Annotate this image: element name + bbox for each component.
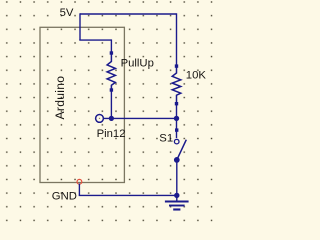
resistor PullUp bbox=[107, 51, 115, 91]
junction at PullUp/Pin12 bbox=[109, 116, 114, 121]
junction at ground bbox=[174, 193, 179, 198]
junction at 10K/Pin12 bbox=[174, 116, 179, 121]
pin Pin12 circle bbox=[96, 115, 104, 123]
svg-text:PullUp: PullUp bbox=[121, 58, 154, 70]
svg-text:Arduino: Arduino bbox=[53, 76, 67, 120]
Arduino box bbox=[40, 27, 124, 182]
wire 5V net left vertical bbox=[79, 13, 81, 40]
wire 10K bottom to switch bbox=[176, 104, 178, 138]
wire Pin12 horizontal bbox=[104, 117, 177, 119]
wire 5V net top horizontal bbox=[80, 13, 177, 15]
svg-text:Pin12: Pin12 bbox=[97, 128, 126, 140]
wire junction to ground symbol bbox=[176, 195, 178, 201]
wire PullUp top lead bbox=[110, 39, 112, 53]
resistor 10K bbox=[172, 64, 181, 105]
ground symbol bbox=[165, 202, 189, 210]
wire 5V to 10K vertical bbox=[176, 13, 178, 66]
wire switch bottom to ground junction bbox=[176, 160, 178, 196]
switch S1 bbox=[174, 128, 186, 162]
wire 5V to PullUp horizontal bbox=[79, 39, 111, 41]
wire GND horizontal bbox=[79, 194, 177, 196]
svg-text:GND: GND bbox=[52, 190, 77, 202]
svg-text:S1: S1 bbox=[159, 132, 173, 144]
pin GND circle bbox=[77, 179, 82, 184]
svg-text:10K: 10K bbox=[186, 69, 207, 81]
svg-text:5V: 5V bbox=[60, 7, 74, 19]
wire GND pin vertical bbox=[78, 184, 80, 196]
pin Pin12 center mark bbox=[99, 118, 100, 119]
wire PullUp bottom to Pin12 junction bbox=[110, 90, 112, 118]
